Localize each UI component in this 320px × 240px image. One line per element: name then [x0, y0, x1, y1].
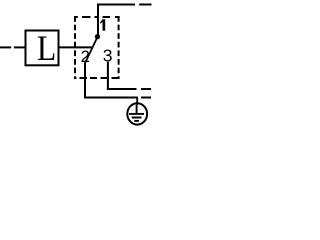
- wire lower horizontal continuation dash: [141, 97, 151, 99]
- dashed enclosure box left edge: [74, 16, 76, 79]
- pin label 1: [100, 19, 105, 31]
- svg-text:2: 2: [81, 47, 90, 66]
- wire top horizontal continuation dash: [139, 4, 151, 6]
- protective earth bar middle: [132, 117, 142, 119]
- dashed enclosure box top edge: [74, 16, 120, 18]
- wire left lead dash 1: [0, 46, 11, 48]
- wire from L box to switch blade: [59, 46, 93, 48]
- wire upper horizontal continuation dash: [141, 88, 151, 90]
- wire terminal 2 lead down: [84, 63, 86, 99]
- wire upper horizontal from terminal 3: [107, 88, 137, 90]
- wire stub down to protective earth: [136, 98, 138, 105]
- node 1 junction dot: [95, 34, 100, 39]
- svg-text:3: 3: [103, 46, 113, 66]
- protective earth bar short: [134, 120, 139, 122]
- protective earth PE circle: [127, 103, 147, 124]
- wire vertical into node 1: [97, 4, 99, 37]
- svg-text:L: L: [37, 29, 56, 68]
- wire terminal 3 lead down: [107, 62, 109, 90]
- switch blade from node 1 to terminal 2: [85, 37, 98, 63]
- protective earth bar long: [129, 113, 144, 115]
- wire left lead dash 2: [14, 46, 26, 48]
- wire lower horizontal from terminal 2: [84, 97, 138, 99]
- protective earth stem: [136, 105, 138, 114]
- component L1 box: [26, 31, 59, 66]
- dashed enclosure box bottom edge: [74, 77, 119, 79]
- wire top horizontal: [97, 4, 135, 6]
- dashed enclosure box right edge: [118, 16, 120, 79]
